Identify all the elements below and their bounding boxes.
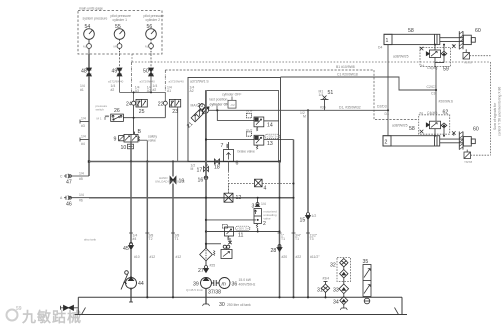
svg-text:59: 59 xyxy=(16,306,22,312)
test port 16 xyxy=(204,174,208,180)
wire pump pressure vertical x=206 xyxy=(205,91,207,167)
cylinder 1 xyxy=(384,34,475,44)
svg-text:33: 33 xyxy=(333,288,339,294)
svg-text:#1: #1 xyxy=(80,88,84,92)
shutoff valve 18 xyxy=(215,159,220,164)
wire safety valve B side down xyxy=(146,141,148,162)
check valve 15 xyxy=(306,213,311,220)
gauge panel dashed box xyxy=(78,11,162,55)
thermometer under 35 xyxy=(364,298,370,304)
svg-text:main units gage: main units gage xyxy=(79,7,103,11)
motor 36 xyxy=(219,278,230,289)
svg-text:C4(#6): C4(#6) xyxy=(427,111,437,115)
svg-text:16: 16 xyxy=(198,178,204,184)
valve 23 xyxy=(169,99,180,107)
strain gauge cyl2 xyxy=(464,150,471,159)
svg-text:4: 4 xyxy=(264,186,267,192)
svg-text:49: 49 xyxy=(112,69,118,75)
svg-text:#4: #4 xyxy=(81,142,85,146)
wire branch y=219.9 xyxy=(206,219,256,221)
svg-text:control Y 56 and monitoring X: control Y 56 and monitoring X 86 xyxy=(498,87,502,136)
svg-text:60: 60 xyxy=(473,127,479,133)
svg-text:400V/50Hz: 400V/50Hz xyxy=(239,283,256,287)
svg-text:62: 62 xyxy=(443,110,449,116)
strain gauge cyl1 xyxy=(463,49,470,59)
svg-text:12: 12 xyxy=(236,195,242,201)
svg-text:1/4: 1/4 xyxy=(81,135,86,139)
svg-text:#6: #6 xyxy=(79,199,83,203)
svg-text:2: 2 xyxy=(263,221,266,227)
svg-text:#3/4: #3/4 xyxy=(323,277,330,281)
svg-text:56: 56 xyxy=(147,24,153,30)
svg-text:27: 27 xyxy=(198,268,204,274)
wire branch y=231.5 xyxy=(206,231,279,233)
wire pilot dash-dot x=165.3 xyxy=(164,70,166,92)
valve 25 xyxy=(136,99,147,107)
svg-text:T1: T1 xyxy=(295,237,299,241)
svg-text:+30V 3+4: +30V 3+4 xyxy=(267,135,280,139)
svg-text:15: 15 xyxy=(300,218,306,224)
wire hand pump line xyxy=(130,250,132,278)
valve 13 xyxy=(206,132,294,150)
interlock sub box xyxy=(206,91,279,162)
svg-text:C1 #20/9W18: C1 #20/9W18 xyxy=(337,73,358,77)
svg-text:D4: D4 xyxy=(378,46,382,50)
test port 47 xyxy=(64,174,89,178)
svg-text:#20/9W.6: #20/9W.6 xyxy=(439,100,453,104)
svg-text:44: 44 xyxy=(138,281,144,287)
svg-text:35: 35 xyxy=(363,259,369,265)
svg-text:B: B xyxy=(138,129,142,135)
wire cyl1 signal dashed xyxy=(470,55,491,57)
svg-text:34: 34 xyxy=(333,300,339,306)
valve circle 22 xyxy=(163,101,167,118)
node P junctions xyxy=(130,160,132,162)
svg-text:#25: #25 xyxy=(210,264,216,268)
svg-text:cylinder 2: cylinder 2 xyxy=(146,18,161,22)
svg-text:48: 48 xyxy=(81,69,87,75)
svg-text:#35: #35 xyxy=(320,105,326,109)
svg-text:MA: MA xyxy=(83,45,88,49)
check valve 27 xyxy=(204,266,209,273)
wire T3 line x=308 xyxy=(307,110,309,213)
svg-text:a372/9W1 S: a372/9W1 S xyxy=(190,80,209,84)
svg-text:last position: last position xyxy=(210,98,228,102)
svg-text:cylinder OFF: cylinder OFF xyxy=(222,93,241,97)
svg-text:13: 13 xyxy=(267,141,273,147)
svg-text:23: 23 xyxy=(172,109,178,115)
svg-text:#2: #2 xyxy=(111,88,115,92)
svg-text:1/4: 1/4 xyxy=(261,202,266,206)
svg-text:A3: A3 xyxy=(135,89,139,93)
svg-text:9: 9 xyxy=(114,137,117,143)
wire gauge56 down dashed xyxy=(150,54,152,68)
svg-text:7: 7 xyxy=(221,143,224,149)
wire D column x=388 xyxy=(387,45,389,136)
svg-text:Sum of signals for: Sum of signals for xyxy=(493,102,497,130)
svg-text:36: 36 xyxy=(232,282,238,288)
svg-text:M1: M1 xyxy=(319,90,324,94)
port ticks and labels bottom manifold xyxy=(129,232,310,234)
svg-text:OUT: OUT xyxy=(246,128,253,132)
svg-text:54: 54 xyxy=(85,24,91,30)
svg-text:A2: A2 xyxy=(147,89,151,93)
svg-text:17: 17 xyxy=(197,168,203,174)
svg-text:20: 20 xyxy=(198,103,204,109)
port stub y=139.5 xyxy=(80,138,89,142)
svg-text:Y8/X8: Y8/X8 xyxy=(464,61,473,65)
wire B1 pilot dashed y=70 xyxy=(165,70,418,120)
cooler 12 xyxy=(224,193,233,202)
svg-text:24: 24 xyxy=(126,102,132,108)
svg-text:D1, #35/9W32: D1, #35/9W32 xyxy=(339,105,361,109)
svg-text:A4: A4 xyxy=(421,64,425,68)
interlock logic box xyxy=(217,97,236,111)
svg-text:m: m xyxy=(222,282,227,288)
svg-text:31: 31 xyxy=(317,288,323,294)
shutoff valve 17 xyxy=(204,165,209,172)
svg-text:58: 58 xyxy=(409,126,415,132)
hand shutoff valve 19 xyxy=(170,177,176,184)
svg-text:60: 60 xyxy=(475,28,481,34)
hand pump 44 xyxy=(121,271,137,290)
pilot valve 3 xyxy=(256,198,260,207)
svg-text:25: 25 xyxy=(139,109,145,115)
test port 46 xyxy=(64,196,89,200)
svg-text:M: M xyxy=(191,167,194,171)
svg-text:brake valve: brake valve xyxy=(238,150,255,154)
check valve 28 xyxy=(277,245,282,252)
svg-text:22: 22 xyxy=(158,102,164,108)
wire brake valve down xyxy=(228,162,230,172)
orifice 4 xyxy=(255,179,263,187)
gauge 55 xyxy=(114,29,125,54)
check valve 50 xyxy=(149,68,154,76)
wire 22 to 24 link y=117.7 xyxy=(134,117,166,119)
svg-text:37/38: 37/38 xyxy=(208,290,221,296)
svg-text:C2/C3: C2/C3 xyxy=(427,85,437,89)
svg-text:1/2: 1/2 xyxy=(312,214,317,218)
wire pump line below P xyxy=(205,162,207,249)
svg-text:cylinder 1: cylinder 1 xyxy=(113,18,128,22)
svg-text:#2: #2 xyxy=(153,88,157,92)
svg-text:14: 14 xyxy=(267,123,273,129)
wire return line y=197.7 xyxy=(89,197,294,199)
svg-text:system pressure: system pressure xyxy=(83,17,108,21)
wire signal sum dashed loop xyxy=(490,62,492,155)
svg-text:switch: switch xyxy=(96,108,105,112)
svg-text:58: 58 xyxy=(408,28,414,34)
svg-text:6: 6 xyxy=(236,161,239,167)
gauge 54 xyxy=(84,29,95,54)
wire T1 line x=293.5 xyxy=(293,140,295,298)
svg-text:32: 32 xyxy=(330,263,336,269)
safety valve 9/10 xyxy=(119,132,140,142)
wire dashed boundary y=62 xyxy=(132,61,491,63)
wire dashed 12 to 4 xyxy=(229,184,255,194)
wire gauge55 down dashed xyxy=(119,54,121,68)
brake valve 6 xyxy=(224,150,234,162)
svg-text:A2: A2 xyxy=(190,89,194,93)
svg-text:B1 #10/9W8: B1 #10/9W8 xyxy=(336,65,355,69)
svg-text:valve: valve xyxy=(148,139,156,143)
wire cyl2 signal dashed xyxy=(471,154,491,156)
pressure switch 26 xyxy=(105,114,134,121)
test coupling 51 xyxy=(321,96,329,111)
svg-text:九敏跍械: 九敏跍械 xyxy=(21,309,82,325)
svg-text:a372/9W40: a372/9W40 xyxy=(140,80,156,84)
svg-text:a372/9W40: a372/9W40 xyxy=(108,80,124,84)
svg-text:#11/2": #11/2" xyxy=(310,255,320,259)
svg-text:-X2: -X2 xyxy=(230,103,235,107)
wire C column x=436 xyxy=(435,66,436,68)
svg-text:11: 11 xyxy=(238,233,243,239)
check valve 48 xyxy=(87,68,92,76)
tank drain valve xyxy=(61,305,79,310)
motor pump 39 xyxy=(201,278,212,289)
svg-text:#4: #4 xyxy=(133,237,137,241)
svg-text:15.0 kW: 15.0 kW xyxy=(239,278,252,282)
valve circle 24 xyxy=(132,101,136,134)
anchor wall cyl1 xyxy=(459,31,463,49)
svg-text:50: 50 xyxy=(143,69,149,75)
wire pump44 to tank xyxy=(130,289,132,303)
svg-text:47: 47 xyxy=(66,180,72,186)
svg-text:55: 55 xyxy=(115,24,121,30)
svg-text:a372/9W40: a372/9W40 xyxy=(169,80,185,84)
wire C1 line xyxy=(281,77,437,90)
svg-text:10: 10 xyxy=(121,145,127,151)
port stub y=121.5 xyxy=(80,120,89,124)
svg-text:C3: C3 xyxy=(431,92,435,96)
svg-text:39: 39 xyxy=(193,282,199,288)
svg-text:T1: T1 xyxy=(175,237,179,241)
svg-text:18: 18 xyxy=(214,165,220,171)
oil tank 30 xyxy=(75,297,408,314)
valve 21 rotated xyxy=(191,107,206,122)
wire pump suction to tank xyxy=(205,289,207,305)
P line y=161.5 xyxy=(89,161,281,163)
air breather 32 xyxy=(337,258,351,282)
svg-text:#22: #22 xyxy=(296,255,302,259)
svg-text:cylinder ON: cylinder ON xyxy=(210,103,230,107)
svg-text:28: 28 xyxy=(271,248,277,254)
wire main pressure line x=89 xyxy=(88,76,90,176)
svg-text:M 1: M 1 xyxy=(97,117,102,121)
check valve 49 xyxy=(117,68,122,76)
wire T2 line x=147.3 down xyxy=(146,162,148,298)
svg-text:a38/9W25: a38/9W25 xyxy=(393,55,409,59)
svg-text:#12: #12 xyxy=(176,255,182,259)
valve 14 xyxy=(217,110,278,131)
check valve 45 xyxy=(129,243,134,250)
wire gauge54 down xyxy=(88,54,90,68)
coupling 37/38 xyxy=(212,280,220,286)
svg-text:45: 45 xyxy=(123,246,129,252)
anchor wall cyl2 xyxy=(459,132,463,150)
accumulator charge unit xyxy=(206,238,232,259)
wire pilot dash-dot x=131.4 xyxy=(130,62,132,92)
svg-text:M: M xyxy=(303,114,306,118)
wire safety valve A down to P line xyxy=(130,142,132,162)
svg-text:1/4: 1/4 xyxy=(81,117,86,121)
svg-text:+30V 3+4: +30V 3+4 xyxy=(237,227,250,231)
svg-text:59: 59 xyxy=(443,67,449,73)
wire pilot jog line y=92.4 xyxy=(120,76,166,101)
svg-text:26: 26 xyxy=(114,108,120,114)
suction filter 40/41 xyxy=(200,244,215,265)
svg-text:a38/9W25: a38/9W25 xyxy=(392,124,408,128)
wire tank entries junction dots xyxy=(146,296,148,298)
watermark logo xyxy=(7,306,83,325)
unloader valve 2 xyxy=(254,209,261,232)
wire tank line x=279.5 xyxy=(279,162,281,298)
node jog junctions xyxy=(133,91,135,93)
wire safety line x=131 down xyxy=(130,162,132,245)
svg-text:#20: #20 xyxy=(282,255,288,259)
wire 23 down to P xyxy=(177,107,179,162)
svg-text:also tank: also tank xyxy=(84,238,97,242)
svg-text:MA: MA xyxy=(145,45,150,49)
svg-text:UNLOAD PRESSURE: UNLOAD PRESSURE xyxy=(155,180,185,184)
svg-text:MA: MA xyxy=(114,45,119,49)
svg-text:1/4: 1/4 xyxy=(79,172,84,176)
svg-text:D3: D3 xyxy=(385,112,389,116)
svg-text:Y8/X8: Y8/X8 xyxy=(464,160,473,164)
svg-text:1/4: 1/4 xyxy=(79,193,84,197)
return filter 33 xyxy=(339,284,349,294)
gauge 56 xyxy=(146,29,157,54)
svg-text:T2: T2 xyxy=(149,237,153,241)
manifold block box xyxy=(188,78,281,162)
relief valve 11 xyxy=(223,225,234,241)
cylinder 2 xyxy=(383,136,475,146)
svg-text:#5: #5 xyxy=(79,177,83,181)
svg-text:250 liter oil tank: 250 liter oil tank xyxy=(227,303,251,307)
svg-text:Q=45.5 l/min: Q=45.5 l/min xyxy=(186,288,203,292)
wire D1 line xyxy=(209,109,389,111)
orifice 20 xyxy=(199,104,209,114)
level gauge 35 xyxy=(363,265,371,297)
svg-text:2: 2 xyxy=(385,140,388,146)
svg-text:T3: T3 xyxy=(310,237,314,241)
svg-text:#10: #10 xyxy=(134,255,140,259)
svg-text:B2: B2 xyxy=(420,111,424,115)
svg-text:D2/D3: D2/D3 xyxy=(377,105,387,109)
svg-text:51: 51 xyxy=(328,90,334,96)
svg-text:30: 30 xyxy=(219,302,225,308)
wire dashed 4 to T1 xyxy=(262,183,293,185)
node P junction xyxy=(88,160,90,162)
brake valve 7 xyxy=(227,142,229,150)
svg-text:A1: A1 xyxy=(167,89,171,93)
svg-text:1: 1 xyxy=(386,38,389,44)
wire line 19 x=173 xyxy=(172,162,174,177)
svg-text:valve: valve xyxy=(264,217,271,221)
counterbalance manifold 62 xyxy=(419,115,450,134)
svg-text:1/4: 1/4 xyxy=(319,93,324,97)
svg-text:#3: #3 xyxy=(81,124,85,128)
counterbalance manifold 59 xyxy=(420,48,451,67)
filler breather 31 xyxy=(321,282,329,298)
check 34 xyxy=(340,294,348,310)
svg-text:T1: T1 xyxy=(281,237,285,241)
svg-text:#12: #12 xyxy=(150,255,156,259)
svg-text:46: 46 xyxy=(66,202,72,208)
